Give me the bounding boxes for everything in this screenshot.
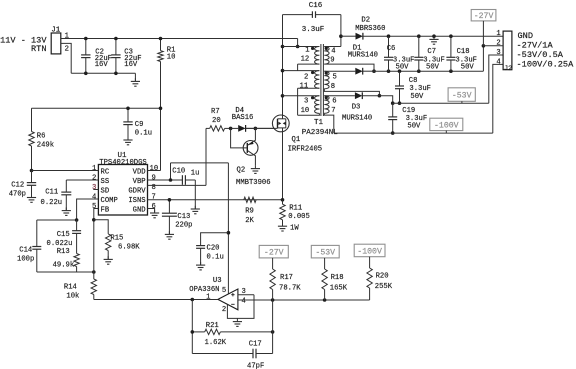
transformer T1 primary winding 3-10 [315,96,320,114]
wire T1 pin4 stub [324,46,341,48]
svg-text:2: 2 [65,46,70,54]
svg-text:-53V: -53V [452,92,472,101]
resistor R1 [160,39,162,51]
svg-text:100p: 100p [17,256,34,264]
svg-text:7: 7 [331,107,335,115]
svg-text:16V: 16V [124,61,138,69]
svg-text:R13: R13 [57,248,70,256]
svg-text:78.7K: 78.7K [279,285,301,293]
capacitor C11 [65,180,67,192]
Q1 source wire [282,128,284,200]
wire comp loop top [37,219,77,221]
wire T1 pin2 stub [283,70,320,72]
Q2 base wire [231,128,248,148]
svg-text:OPA336N: OPA336N [189,286,219,294]
wire VBP loop top [171,162,229,164]
svg-text:1: 1 [92,165,96,173]
T1 winding 6 phase dot [325,96,328,99]
ground RTN [134,73,136,81]
svg-text:SD: SD [101,187,110,195]
wire SS pin2 [66,179,98,181]
svg-text:MBRS360: MBRS360 [355,25,385,33]
svg-text:1: 1 [496,30,500,38]
wire top +11V rail [64,38,298,40]
svg-text:C11: C11 [45,188,58,196]
svg-text:T1: T1 [314,119,324,127]
wire GND output rail [389,35,504,37]
svg-text:6: 6 [332,98,336,106]
T1 core [320,44,322,116]
wire T1 pin12-pin2 jumper [297,64,299,71]
svg-text:TPS40210DGS: TPS40210DGS [99,159,146,167]
capacitor C18 [450,36,452,57]
svg-text:249k: 249k [37,141,54,149]
T1 winding 5 phase dot [325,72,328,75]
svg-text:R18: R18 [331,274,344,282]
wire U3 feedback wrap [227,295,254,319]
resistor R20 [369,257,371,268]
net flag -53V bottom [311,245,339,258]
svg-text:16V: 16V [95,61,109,69]
wire RTN bottom of C2 C3 [71,72,135,74]
svg-text:C17: C17 [249,340,262,348]
svg-text:1.62K: 1.62K [205,339,227,347]
svg-text:0.1u: 0.1u [135,130,152,138]
svg-text:C16: C16 [309,2,323,10]
svg-text:BAS16: BAS16 [232,114,254,122]
svg-text:C14: C14 [19,247,32,255]
wire U3 pin3 stub [238,294,254,296]
capacitor C9 [127,108,129,122]
svg-text:11: 11 [300,83,309,91]
svg-text:MMBT3906: MMBT3906 [236,179,271,187]
wire U3 pin4 row [238,299,370,301]
transistor Q2 MMBT3906 [243,141,258,156]
svg-text:12: 12 [301,56,310,64]
svg-text:-100V: -100V [434,121,459,130]
svg-text:8: 8 [331,83,335,91]
wire -27V rail [374,70,483,72]
svg-text:VDD: VDD [133,168,146,176]
ic U1 TPS40210DGS [98,165,147,216]
T1 winding 3 phase dot [311,96,314,99]
svg-text:165K: 165K [330,285,348,293]
svg-text:10: 10 [167,54,176,62]
net flag -27V bottom [259,245,288,258]
svg-text:10k: 10k [66,292,79,300]
svg-text:2: 2 [496,40,500,48]
Q1 gate wire [246,127,278,129]
wire VBP ground branch [194,180,196,209]
capacitor C15 [76,220,78,231]
svg-text:MURS140: MURS140 [348,52,378,60]
svg-text:C13: C13 [177,213,190,221]
svg-text:R21: R21 [206,322,219,330]
svg-text:C12: C12 [11,181,24,189]
svg-text:2: 2 [222,306,226,314]
op-amp U3 OPA336N [218,289,238,310]
wire drain vertical to C16 [282,15,284,96]
wire -53V row to J2 pin3 [489,55,503,103]
svg-text:-100V: -100V [357,247,382,256]
svg-text:5: 5 [333,73,337,81]
wire T1 pin12 stub [298,63,320,65]
svg-text:5: 5 [222,287,226,295]
svg-text:C20: C20 [207,245,220,253]
Q2 collector wire [248,151,256,166]
resistor R21 [192,331,204,333]
capacitor C10 [181,175,183,185]
svg-text:U3: U3 [213,277,222,285]
svg-text:3: 3 [496,49,500,57]
svg-text:-27V: -27V [264,249,284,258]
resistor R17 [272,258,274,269]
svg-text:50V: 50V [396,63,410,71]
capacitor C20 [201,233,229,246]
svg-text:50V: 50V [410,93,424,101]
connector J2 [503,31,512,70]
svg-text:R7: R7 [211,108,220,116]
svg-text:R20: R20 [376,273,389,281]
wire COMP pin4 [77,199,99,220]
wire VBP pin9 [148,179,183,181]
svg-text:3: 3 [92,184,96,192]
svg-text:470p: 470p [9,191,26,199]
net flag -53V [448,88,475,102]
svg-text:PA2394NL: PA2394NL [302,129,339,137]
capacitor C17 [192,353,253,355]
capacitor C14 [36,220,38,247]
wire T1 pin8 drop [324,89,379,96]
svg-text:6.98K: 6.98K [118,243,140,251]
wire T1 pin11 stub [298,87,320,89]
wire R21 left riser [191,300,193,354]
T1 winding 2 phase dot [311,71,314,74]
diode D2 MBRS360 [341,35,356,37]
wire -53V row [393,102,489,104]
wire VDD pin10 [148,170,161,172]
wire comp loop bottom [37,271,94,273]
diode D3 MURS140 [324,95,355,97]
capacitor C19 [392,103,394,117]
svg-text:IRFR2405: IRFR2405 [288,145,323,153]
ground output rail [433,36,435,39]
transformer T1 primary winding 1-12 [315,47,320,65]
wire opamp supply vertical [227,163,229,295]
wire GDRV pin8 [148,184,207,186]
ground U3 [236,318,238,321]
wire FB node vertical [93,220,95,279]
svg-text:255K: 255K [375,283,393,291]
svg-text:1: 1 [305,47,309,55]
wire R15 branch [94,220,108,234]
svg-text:4: 4 [331,48,335,56]
svg-text:4: 4 [242,297,246,305]
svg-text:0.1u: 0.1u [207,254,224,262]
svg-text:D3: D3 [352,103,361,111]
ground Q2 [254,165,256,168]
U3 minus input mark [231,303,234,305]
resistor R14 [91,279,96,295]
svg-text:R6: R6 [37,132,46,140]
svg-text:R11: R11 [289,205,302,213]
svg-text:-27V: -27V [474,12,494,21]
svg-text:ISNS: ISNS [128,197,145,205]
wire D3 output corner [379,96,392,104]
transformer T1 primary winding 2-11 [315,71,320,89]
wire -100V row to J2 pin4 [493,64,503,133]
svg-text:9: 9 [152,174,156,182]
wire -100V row [334,132,493,134]
wire rail corner into T1 pin1 [297,39,299,47]
wire SD pin3 stub [93,189,98,191]
svg-text:4: 4 [92,193,96,201]
Q1 drain wire [282,96,284,119]
svg-text:C15: C15 [57,231,70,239]
wire ISNS pin7 [148,199,283,201]
svg-text:GND: GND [133,206,146,214]
svg-text:50V: 50V [407,122,421,130]
svg-text:GDRV: GDRV [128,187,146,195]
svg-text:D2: D2 [361,17,370,25]
transformer T1 secondary winding 5-8 [324,71,329,89]
svg-text:47pF: 47pF [247,362,264,369]
net flag -27V top [471,10,496,21]
resistor R18 [324,258,326,269]
wire T1 pin7 drop [324,113,334,133]
svg-text:2K: 2K [245,217,254,225]
svg-text:20: 20 [212,117,221,125]
net flag -100V [430,118,463,130]
svg-text:J1: J1 [51,27,61,35]
svg-text:1W: 1W [290,225,299,233]
capacitor C6 [388,36,390,57]
mosfet Q1 IRFR2405 [272,115,289,132]
svg-text:C9: C9 [135,121,144,129]
svg-text:R14: R14 [64,283,77,291]
svg-text:3.3uF: 3.3uF [302,26,325,34]
svg-text:49.9k: 49.9k [53,261,75,269]
wire GDRV riser [205,128,207,185]
svg-text:0.005: 0.005 [288,213,310,221]
wire T1 pin10 stub [298,113,320,115]
svg-text:10: 10 [150,165,159,173]
wire VDD rail [32,107,161,109]
svg-text:VBP: VBP [133,178,146,186]
capacitor C13 [168,200,170,213]
ground U1 GND [154,210,156,213]
capacitor C2 [85,39,87,55]
T1 winding 1 phase dot [311,47,314,50]
svg-text:3.3uF: 3.3uF [409,85,431,93]
wire T1 pin11-pin3 jumper [297,88,299,115]
svg-text:J2: J2 [504,65,512,73]
wire U3 output row [94,299,218,301]
capacitor C12 [31,171,33,183]
svg-text:220p: 220p [175,222,192,230]
svg-text:10: 10 [301,107,310,115]
T1 winding 4 phase dot [325,47,328,50]
wire -27V flag stub [482,21,484,46]
svg-text:MURS140: MURS140 [342,114,372,122]
wire J1 pin2 elbow [61,43,71,73]
svg-text:C18: C18 [457,48,470,56]
svg-text:R17: R17 [280,274,293,282]
resistor R13 [74,254,79,267]
capacitor C3 [115,39,117,55]
svg-text:1u: 1u [191,169,200,177]
svg-text:RC: RC [101,168,110,176]
wire R17 column down [272,300,274,354]
diode D1 MURS140 [324,70,355,72]
svg-text:C8: C8 [409,77,418,85]
svg-text:C19: C19 [402,107,415,115]
transformer T1 secondary winding 6-7 [324,96,329,114]
J2 pin2 wire [483,45,503,47]
resistor R7 [210,126,225,131]
transformer T1 secondary winding 4-9 [324,47,329,65]
svg-text:-100V/0.25A: -100V/0.25A [517,59,575,69]
svg-text:9: 9 [330,56,334,64]
Q2 emitter wire [248,128,256,145]
wire RC pin1 [32,170,99,172]
svg-text:2: 2 [92,174,96,182]
svg-text:FB: FB [101,206,110,214]
svg-text:50V: 50V [461,63,475,71]
wire FB pin5 [94,209,99,220]
svg-text:C6: C6 [387,45,396,53]
capacitor C7 [418,36,420,57]
wire GND pin6 [148,209,155,213]
resistor R6 [31,108,33,131]
svg-text:C7: C7 [427,48,436,56]
wire T1 pin1 stub [283,46,320,48]
svg-text:R15: R15 [110,235,123,243]
capacitor C16 [283,14,313,16]
svg-text:SS: SS [101,178,110,186]
diode D4 BAS16 [231,127,239,129]
svg-text:6: 6 [152,203,156,211]
svg-text:4: 4 [496,59,500,67]
net flag -100V bottom [354,244,385,257]
svg-text:COMP: COMP [101,197,118,205]
resistor R9 [244,197,256,202]
svg-text:2: 2 [304,73,308,81]
resistor R15 [106,234,111,251]
wire VBP loop left [170,163,172,180]
svg-text:1: 1 [206,293,210,301]
svg-text:3: 3 [304,98,308,106]
svg-text:R9: R9 [245,208,254,216]
wire -53V flag stub [461,101,463,103]
svg-text:C10: C10 [172,167,185,175]
wire -100V flag stub [445,131,447,134]
svg-text:Q1: Q1 [292,136,301,144]
connector J1 [51,33,61,54]
svg-text:RTN: RTN [31,44,46,54]
U3 plus input mark [231,294,234,296]
resistor R11 [281,198,285,202]
svg-text:50V: 50V [426,63,440,71]
wire T1 pin3 stub [283,95,320,97]
wire J1 pin1 to +rail [61,38,64,40]
capacitor C8 [399,71,401,86]
wire C16 to D2 anode [340,15,342,47]
wire -27V rail to J2 pin2 [482,46,484,71]
svg-text:1: 1 [65,33,70,41]
svg-text:Q2: Q2 [237,166,246,174]
wire T1 pin9 drop [324,64,374,71]
svg-text:-53V: -53V [315,249,335,258]
svg-text:0.22u: 0.22u [41,199,63,207]
